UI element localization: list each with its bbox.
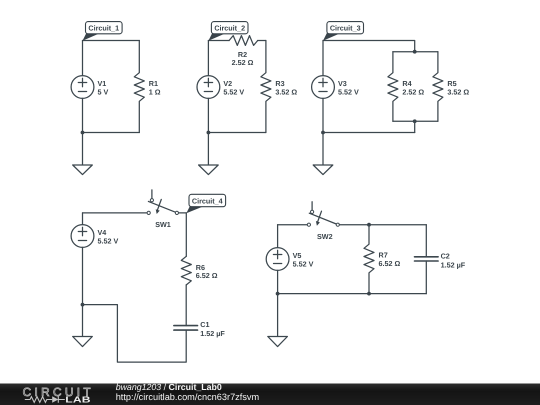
- wire top C1: [83, 40, 140, 42]
- net flag Circuit_4: [186, 194, 225, 213]
- wire left-bottom C3: [322, 98, 324, 132]
- voltage source V3: [312, 76, 335, 99]
- wire right branch C5: [425, 225, 427, 257]
- svg-text:2.52 Ω: 2.52 Ω: [232, 58, 254, 67]
- node junction C4: [81, 303, 85, 307]
- wire C2 bottom: [425, 261, 427, 294]
- wire bottom bus C3: [393, 120, 438, 122]
- svg-text:1.52 µF: 1.52 µF: [200, 329, 225, 338]
- net flag Circuit_2: [208, 22, 248, 41]
- svg-text:C2: C2: [441, 252, 450, 261]
- wire bottom C5: [278, 293, 427, 295]
- wire right branch C4: [185, 213, 187, 256]
- footer bar: [0, 384, 540, 405]
- svg-text:5.52 V: 5.52 V: [293, 260, 314, 269]
- wire bottom C2: [208, 132, 266, 134]
- node junction C3: [321, 131, 325, 135]
- svg-text:http://circuitlab.com/cncn63r7: http://circuitlab.com/cncn63r7zfsvm: [116, 392, 260, 402]
- node top R7: [367, 223, 371, 227]
- node junction C1: [81, 131, 85, 135]
- wire top C4: [83, 212, 148, 214]
- svg-text:6.52 Ω: 6.52 Ω: [379, 259, 401, 268]
- wire SW1 to corner: [179, 212, 187, 214]
- svg-text:bwang1203 / Circuit_Lab0: bwang1203 / Circuit_Lab0: [116, 382, 222, 392]
- svg-text:2.52 Ω: 2.52 Ω: [402, 88, 424, 97]
- wire cap bottom C4: [83, 305, 187, 363]
- switch SW2: [307, 202, 339, 227]
- svg-text:5.52 V: 5.52 V: [98, 237, 119, 246]
- svg-text:1.52 µF: 1.52 µF: [441, 260, 466, 269]
- wire top-right C2: [258, 40, 266, 42]
- node top bus C3: [413, 50, 417, 54]
- svg-text:5.52 V: 5.52 V: [223, 88, 244, 97]
- ground C5: [268, 294, 288, 347]
- wire left-bottom C2: [207, 98, 209, 132]
- resistor R6: [181, 256, 191, 285]
- wire left-top C1: [82, 41, 84, 76]
- wire top bus C3: [393, 51, 438, 53]
- ground C1: [73, 133, 93, 175]
- wire top-left C5: [278, 224, 308, 226]
- svg-text:SW1: SW1: [155, 220, 171, 229]
- resistor R5: [433, 52, 443, 122]
- logo wire resistor diode: [25, 396, 65, 402]
- wire R6 to C1cap: [185, 285, 187, 326]
- voltage source V4: [71, 225, 94, 248]
- wire left-bottom C5: [277, 270, 279, 293]
- svg-text:Circuit_2: Circuit_2: [214, 23, 245, 32]
- capacitor C2: [415, 257, 439, 261]
- wire left-top C3: [322, 41, 324, 76]
- svg-text:Circuit_4: Circuit_4: [192, 196, 223, 205]
- node bottom R7: [367, 292, 371, 296]
- ground C3: [313, 133, 333, 175]
- svg-text:Circuit_1: Circuit_1: [88, 23, 119, 32]
- node bottom bus C3: [413, 119, 417, 123]
- resistor R2: [229, 36, 258, 46]
- wire top-right C5: [339, 224, 426, 226]
- wire top-left C2: [208, 40, 229, 42]
- wire left-top C2: [207, 41, 209, 76]
- voltage source V1: [71, 76, 94, 99]
- svg-text:LAB: LAB: [65, 394, 91, 404]
- voltage source V5: [266, 248, 289, 271]
- voltage source V2: [197, 76, 220, 99]
- net flag Circuit_1: [83, 22, 123, 41]
- wire bottom C1: [83, 132, 140, 134]
- resistor R3: [261, 41, 271, 133]
- svg-text:Circuit_3: Circuit_3: [330, 23, 361, 32]
- svg-text:5 V: 5 V: [98, 88, 109, 97]
- svg-text:5.52 V: 5.52 V: [338, 88, 359, 97]
- wire bus drop C3: [414, 121, 416, 132]
- wire bottom C3: [323, 132, 415, 134]
- wire left-top C4: [82, 213, 84, 225]
- resistor R7: [364, 225, 374, 294]
- resistor R4: [388, 52, 398, 122]
- wire left-bottom C1: [82, 98, 84, 132]
- ground C4: [73, 305, 93, 347]
- net flag Circuit_3: [323, 22, 364, 41]
- capacitor C1: [174, 326, 198, 331]
- wire top C3: [323, 41, 415, 52]
- svg-text:3.52 Ω: 3.52 Ω: [447, 88, 469, 97]
- svg-text:3.52 Ω: 3.52 Ω: [275, 88, 297, 97]
- svg-text:1 Ω: 1 Ω: [149, 88, 161, 97]
- node bottom left C5: [276, 292, 280, 296]
- wire left-bottom C4: [82, 247, 84, 304]
- node junction C2: [207, 131, 211, 135]
- svg-text:6.52 Ω: 6.52 Ω: [196, 271, 218, 280]
- wire left-top C5: [277, 225, 279, 248]
- svg-text:SW2: SW2: [317, 232, 333, 241]
- resistor R1: [134, 41, 144, 133]
- switch SW1: [147, 190, 178, 215]
- ground C2: [199, 133, 219, 175]
- svg-text:C1: C1: [200, 320, 209, 329]
